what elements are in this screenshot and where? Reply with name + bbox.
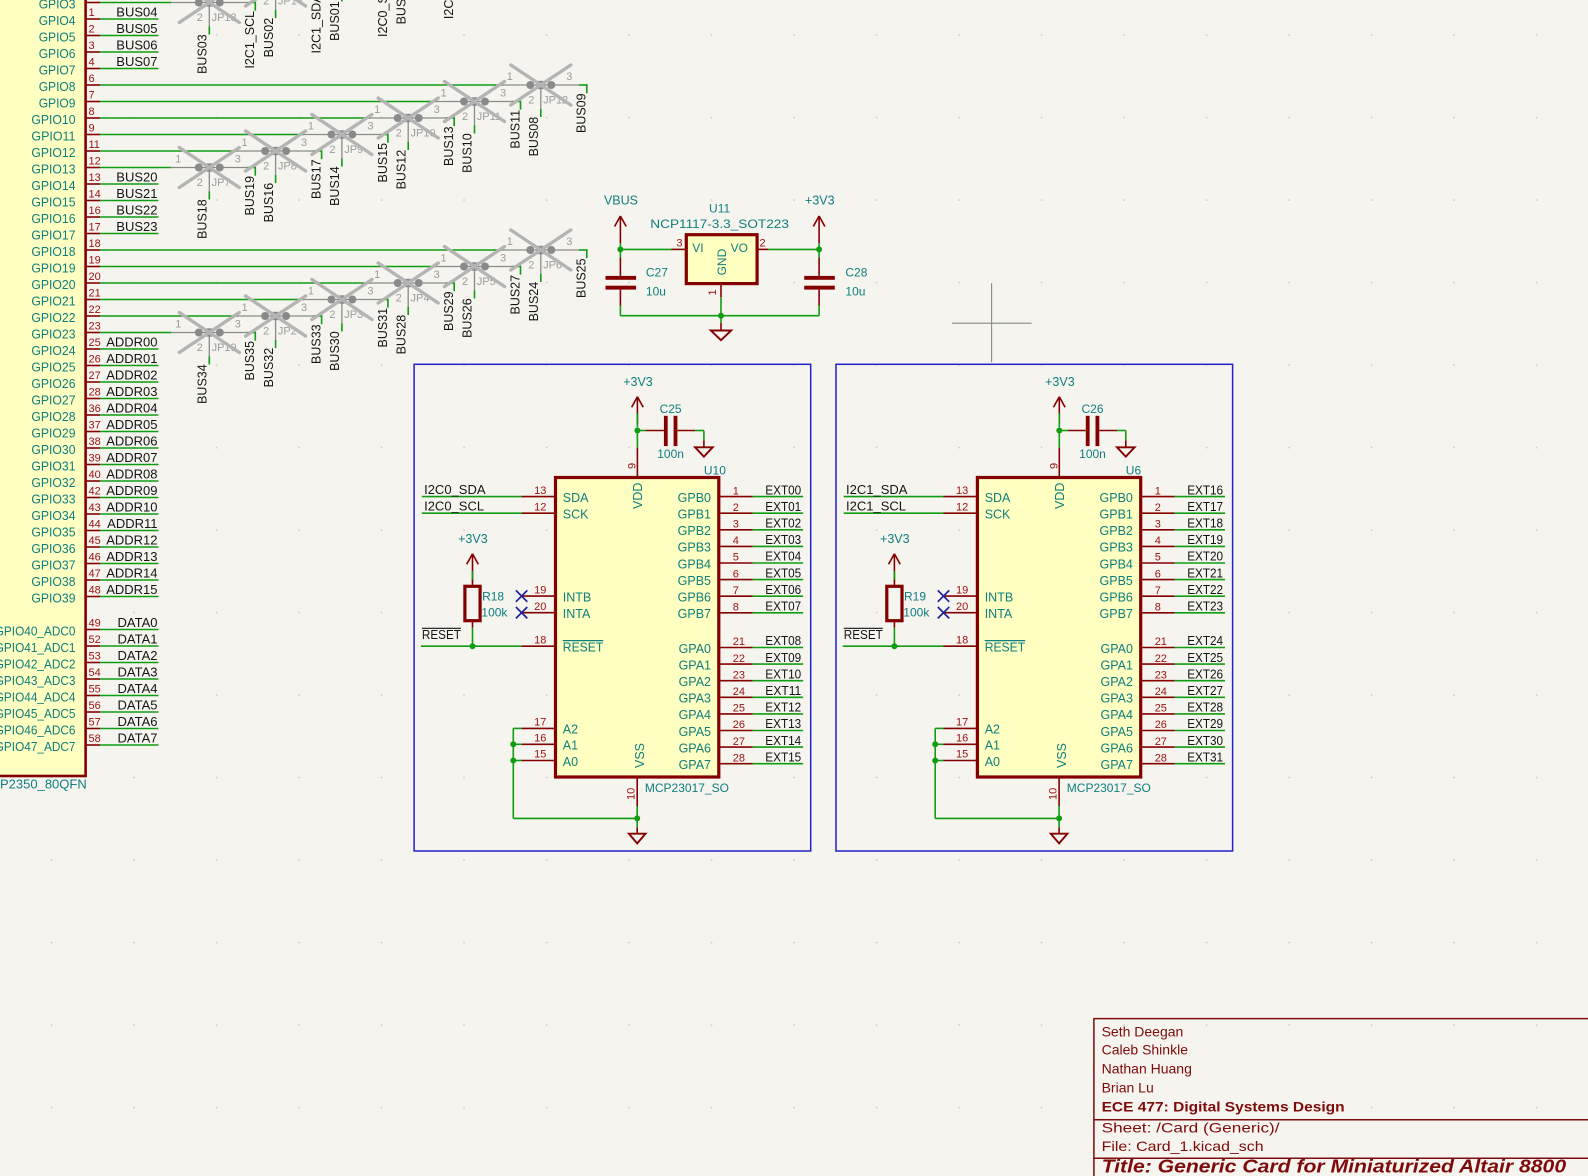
pin 57 GPIO46_ADC6 + wire + label DATA6 bbox=[0, 714, 158, 738]
pin 43 GPIO34 + wire + label ADDR10 bbox=[31, 499, 158, 523]
svg-text:1: 1 bbox=[175, 319, 181, 331]
solder jumper JP13 (DNP) bbox=[171, 0, 247, 28]
power flag +3V3 (U10 VDD) bbox=[623, 375, 653, 427]
svg-text:+3V3: +3V3 bbox=[880, 532, 910, 546]
svg-text:55: 55 bbox=[89, 684, 101, 696]
svg-text:GPA6: GPA6 bbox=[1100, 741, 1132, 755]
svg-text:EXT09: EXT09 bbox=[765, 650, 801, 665]
svg-text:EXT23: EXT23 bbox=[1187, 599, 1223, 614]
svg-text:BUS18: BUS18 bbox=[196, 199, 210, 239]
junction A0 U6 bbox=[932, 758, 938, 764]
svg-text:3: 3 bbox=[301, 302, 307, 314]
svg-text:13: 13 bbox=[89, 172, 101, 184]
svg-text:SDA: SDA bbox=[563, 491, 589, 505]
solder jumper JP6 (DNP) bbox=[503, 236, 579, 275]
svg-text:DATA0: DATA0 bbox=[118, 615, 158, 630]
pin 23 GPA2 of U6 + wire + label EXT26 bbox=[1100, 666, 1225, 689]
svg-text:2: 2 bbox=[89, 24, 95, 36]
svg-text:GPIO33: GPIO33 bbox=[31, 491, 75, 506]
svg-text:GPA2: GPA2 bbox=[679, 675, 711, 689]
pin 26 GPA5 of U6 + wire + label EXT29 bbox=[1100, 716, 1225, 739]
svg-text:9: 9 bbox=[89, 123, 95, 135]
svg-text:EXT16: EXT16 bbox=[1187, 482, 1223, 497]
svg-text:BUS28: BUS28 bbox=[394, 315, 408, 355]
solder jumper JP14 (DNP) bbox=[238, 0, 314, 11]
svg-text:EXT04: EXT04 bbox=[765, 549, 801, 564]
svg-text:21: 21 bbox=[89, 288, 101, 300]
svg-text:1: 1 bbox=[440, 253, 446, 265]
svg-text:EXT07: EXT07 bbox=[765, 599, 801, 614]
svg-text:1: 1 bbox=[733, 485, 739, 497]
svg-text:EXT31: EXT31 bbox=[1187, 749, 1223, 764]
svg-text:2: 2 bbox=[528, 94, 534, 106]
ground symbol (C26) bbox=[1117, 431, 1135, 457]
svg-text:BUS05: BUS05 bbox=[116, 21, 157, 36]
svg-text:16: 16 bbox=[534, 733, 546, 745]
svg-text:26: 26 bbox=[89, 354, 101, 366]
svg-text:GPIO41_ADC1: GPIO41_ADC1 bbox=[0, 640, 76, 655]
svg-text:20: 20 bbox=[956, 601, 968, 613]
svg-text:ADDR09: ADDR09 bbox=[106, 483, 157, 498]
wire JP12 pin2 net BUS08 bbox=[527, 109, 541, 156]
wire A2/A1/A0 bus down to VSS net U6 bbox=[935, 728, 1059, 818]
svg-text:2: 2 bbox=[733, 502, 739, 514]
svg-text:44: 44 bbox=[89, 519, 101, 531]
svg-text:BUS26: BUS26 bbox=[461, 298, 475, 338]
svg-text:EXT14: EXT14 bbox=[765, 733, 801, 748]
pins 17/16/15 A2/A1/A0 of U10 tied low bbox=[513, 717, 578, 769]
wire JP12 pin3 elbow net BUS09 bbox=[575, 84, 589, 133]
graphic frame (blue box) around U6 bbox=[836, 364, 1233, 851]
svg-text:12: 12 bbox=[89, 156, 101, 168]
pin 1 GPB0 of U10 + wire + label EXT00 bbox=[678, 482, 803, 505]
svg-text:1: 1 bbox=[242, 302, 248, 314]
svg-text:12: 12 bbox=[534, 501, 546, 513]
junction A1 U6 bbox=[932, 741, 938, 747]
svg-text:U11: U11 bbox=[709, 201, 730, 215]
svg-text:GPIO15: GPIO15 bbox=[31, 194, 75, 209]
DNP cross on JP19 bbox=[179, 313, 239, 353]
pin 26 GPA5 of U10 + wire + label EXT13 bbox=[679, 716, 804, 739]
svg-text:8: 8 bbox=[89, 106, 95, 118]
svg-text:7: 7 bbox=[733, 585, 739, 597]
solder jumper JP12 (DNP) bbox=[503, 71, 579, 110]
svg-text:C26: C26 bbox=[1081, 402, 1103, 416]
svg-text:GPIO39: GPIO39 bbox=[31, 590, 75, 605]
pin 18 RESET of U10 + wire + label RESET bbox=[421, 627, 604, 654]
svg-text:1: 1 bbox=[175, 154, 181, 166]
svg-text:27: 27 bbox=[1155, 736, 1167, 748]
svg-text:18: 18 bbox=[956, 634, 968, 646]
svg-text:GPA5: GPA5 bbox=[1100, 725, 1132, 739]
svg-text:GPIO45_ADC5: GPIO45_ADC5 bbox=[0, 706, 76, 721]
svg-text:EXT19: EXT19 bbox=[1187, 532, 1223, 547]
pin 16 GPIO16 + wire + label BUS22 bbox=[31, 202, 158, 226]
svg-text:2: 2 bbox=[263, 325, 269, 337]
svg-text:U6: U6 bbox=[1126, 464, 1142, 478]
svg-text:BUS35: BUS35 bbox=[243, 341, 257, 381]
svg-text:GPIO42_ADC2: GPIO42_ADC2 bbox=[0, 656, 76, 671]
svg-text:18: 18 bbox=[89, 238, 101, 250]
pin 11 GPIO12 + wire to jumper bbox=[31, 139, 237, 160]
svg-text:39: 39 bbox=[89, 453, 101, 465]
svg-text:2: 2 bbox=[329, 309, 335, 321]
svg-text:File: Card_1.kicad_sch: File: Card_1.kicad_sch bbox=[1102, 1138, 1264, 1154]
svg-text:GPA0: GPA0 bbox=[679, 642, 711, 656]
svg-text:GPA1: GPA1 bbox=[1100, 658, 1132, 672]
svg-text:27: 27 bbox=[89, 370, 101, 382]
pin 12 SCK of U10 + wire + label I2C0_SCL bbox=[422, 499, 589, 522]
svg-text:4: 4 bbox=[1155, 535, 1161, 547]
svg-text:BUS08: BUS08 bbox=[527, 117, 541, 157]
svg-text:GPB5: GPB5 bbox=[678, 574, 711, 588]
capacitor C26 100n bbox=[1059, 402, 1117, 461]
svg-text:16: 16 bbox=[956, 733, 968, 745]
svg-text:EXT27: EXT27 bbox=[1187, 683, 1223, 698]
svg-text:I2C1_SCL: I2C1_SCL bbox=[846, 499, 906, 514]
pin 14 GPIO15 + wire + label BUS21 bbox=[31, 186, 158, 210]
DNP cross on JP3 bbox=[312, 280, 372, 320]
wire JP19 pin3 elbow net BUS35 bbox=[243, 332, 257, 381]
svg-text:2: 2 bbox=[263, 160, 269, 172]
svg-text:1: 1 bbox=[308, 121, 314, 133]
svg-text:15: 15 bbox=[956, 749, 968, 761]
svg-text:BUS22: BUS22 bbox=[116, 202, 157, 217]
svg-text:EXT22: EXT22 bbox=[1187, 582, 1223, 597]
svg-text:8: 8 bbox=[1155, 602, 1161, 614]
svg-text:21: 21 bbox=[733, 636, 745, 648]
junction +3V3 node bbox=[816, 246, 822, 252]
DNP cross on JP12 bbox=[511, 65, 571, 105]
svg-text:ADDR10: ADDR10 bbox=[106, 499, 157, 514]
svg-text:ADDR01: ADDR01 bbox=[106, 351, 157, 366]
wire JP5 pin3 elbow net BUS27 bbox=[508, 266, 522, 315]
svg-text:ADDR02: ADDR02 bbox=[106, 367, 157, 382]
svg-text:23: 23 bbox=[1155, 669, 1167, 681]
svg-text:BUS06: BUS06 bbox=[116, 37, 157, 52]
svg-text:ADDR13: ADDR13 bbox=[106, 549, 157, 564]
svg-text:2: 2 bbox=[1155, 502, 1161, 514]
svg-text:INTB: INTB bbox=[563, 590, 591, 604]
svg-text:DATA4: DATA4 bbox=[118, 681, 158, 696]
svg-text:BUS31: BUS31 bbox=[376, 308, 390, 348]
power flag +3V3 (R19) bbox=[880, 532, 910, 581]
pin 1 GPIO4 + wire + label BUS04 bbox=[39, 4, 159, 28]
svg-text:GPIO14: GPIO14 bbox=[31, 178, 75, 193]
svg-text:GPIO37: GPIO37 bbox=[31, 557, 75, 572]
wire +3V3 down to U10 VDD pin 9 bbox=[627, 431, 639, 477]
pin 10 VSS of U6 bbox=[1047, 777, 1059, 818]
svg-text:17: 17 bbox=[89, 222, 101, 234]
pin 54 GPIO43_ADC3 + wire + label DATA3 bbox=[0, 664, 158, 688]
svg-text:GPIO20: GPIO20 bbox=[31, 277, 75, 292]
svg-text:GPB5: GPB5 bbox=[1100, 574, 1133, 588]
svg-text:GPIO27: GPIO27 bbox=[31, 392, 75, 407]
svg-text:3: 3 bbox=[367, 286, 373, 298]
pin 55 GPIO44_ADC4 + wire + label DATA4 bbox=[0, 681, 158, 705]
pin 3 GPB2 of U10 + wire + label EXT02 bbox=[678, 516, 803, 539]
svg-text:VSS: VSS bbox=[633, 743, 647, 768]
pin 49 GPIO40_ADC0 + wire + label DATA0 bbox=[0, 615, 158, 639]
wire JP9 pin3 elbow net BUS15 bbox=[376, 134, 390, 183]
svg-text:GPB3: GPB3 bbox=[1100, 541, 1133, 555]
svg-text:3: 3 bbox=[566, 236, 572, 248]
svg-text:EXT10: EXT10 bbox=[765, 666, 801, 681]
svg-text:7: 7 bbox=[89, 90, 95, 102]
svg-text:U10: U10 bbox=[704, 464, 726, 478]
wire JP7 pin2 net BUS18 bbox=[196, 192, 210, 239]
svg-text:54: 54 bbox=[89, 667, 101, 679]
svg-text:SCK: SCK bbox=[985, 508, 1011, 522]
svg-text:19: 19 bbox=[534, 584, 546, 596]
pin 24 GPA3 of U10 + wire + label EXT11 bbox=[679, 683, 804, 706]
svg-text:2: 2 bbox=[760, 237, 766, 249]
svg-text:EXT21: EXT21 bbox=[1187, 565, 1223, 580]
svg-text:17: 17 bbox=[534, 717, 546, 729]
pins 17/16/15 A2/A1/A0 of U6 tied low bbox=[935, 717, 1000, 769]
wire JP14 pin3 elbow net I2C1_SDA bbox=[310, 0, 324, 53]
svg-text:28: 28 bbox=[733, 752, 745, 764]
svg-text:1: 1 bbox=[707, 289, 719, 295]
svg-text:BUS21: BUS21 bbox=[116, 186, 157, 201]
svg-text:3: 3 bbox=[367, 121, 373, 133]
svg-text:24: 24 bbox=[733, 686, 745, 698]
svg-text:37: 37 bbox=[89, 420, 101, 432]
pin 25 GPIO24 + wire + label ADDR00 bbox=[31, 334, 158, 358]
svg-text:BUS20: BUS20 bbox=[116, 169, 157, 184]
svg-text:2: 2 bbox=[197, 177, 203, 189]
svg-text:GPIO29: GPIO29 bbox=[31, 425, 75, 440]
svg-text:INTA: INTA bbox=[985, 607, 1013, 621]
svg-text:GPA0: GPA0 bbox=[1100, 642, 1132, 656]
svg-text:ADDR14: ADDR14 bbox=[106, 565, 157, 580]
sheet origin crosshair marker bbox=[952, 283, 1032, 362]
svg-text:9: 9 bbox=[627, 463, 639, 469]
svg-text:EXT13: EXT13 bbox=[765, 716, 801, 731]
svg-text:2: 2 bbox=[197, 12, 203, 24]
pin 21 GPIO21 + wire to jumper bbox=[31, 288, 304, 309]
svg-text:EXT24: EXT24 bbox=[1187, 633, 1223, 648]
wire JP10 pin3 elbow net BUS13 bbox=[442, 117, 456, 166]
svg-text:GPIO46_ADC6: GPIO46_ADC6 bbox=[0, 722, 76, 737]
pin 8 GPB7 of U6 + wire + label EXT23 bbox=[1100, 599, 1225, 622]
DNP cross on JP6 bbox=[511, 230, 571, 270]
pin 22 GPA1 of U6 + wire + label EXT25 bbox=[1100, 650, 1225, 673]
pin 7 GPB6 of U10 + wire + label EXT06 bbox=[678, 582, 803, 605]
svg-text:I2C1_SDA: I2C1_SDA bbox=[846, 482, 908, 497]
pin 53 GPIO42_ADC2 + wire + label DATA2 bbox=[0, 648, 158, 672]
svg-text:GPIO19: GPIO19 bbox=[31, 260, 75, 275]
svg-text:GND: GND bbox=[715, 248, 729, 275]
junction VSS node U10 bbox=[634, 815, 640, 821]
svg-text:VBUS: VBUS bbox=[604, 193, 638, 207]
svg-text:EXT01: EXT01 bbox=[765, 499, 801, 514]
solder jumper JP7 (DNP) bbox=[171, 154, 247, 193]
svg-text:RESET: RESET bbox=[563, 641, 604, 655]
svg-text:A1: A1 bbox=[563, 739, 578, 753]
svg-text:BUS13: BUS13 bbox=[442, 126, 456, 166]
svg-text:53: 53 bbox=[89, 651, 101, 663]
svg-text:C27: C27 bbox=[646, 265, 668, 279]
pin 18 GPIO18 + wire to jumper bbox=[31, 238, 502, 259]
pin 48 GPIO39 + wire + label ADDR15 bbox=[31, 582, 158, 606]
pin 8 GPIO10 + wire to jumper bbox=[31, 106, 370, 127]
svg-text:INTA: INTA bbox=[563, 607, 591, 621]
svg-text:GPA7: GPA7 bbox=[1100, 758, 1132, 772]
pin 28 GPA7 of U10 + wire + label EXT15 bbox=[679, 749, 804, 772]
svg-text:GPIO43_ADC3: GPIO43_ADC3 bbox=[0, 673, 76, 688]
svg-text:RESET: RESET bbox=[422, 627, 461, 642]
title block frame bbox=[1093, 1019, 1588, 1176]
svg-text:GPIO6: GPIO6 bbox=[39, 46, 76, 61]
svg-text:3: 3 bbox=[235, 319, 241, 331]
pin 52 GPIO41_ADC1 + wire + label DATA1 bbox=[0, 631, 158, 655]
pin 22 GPA1 of U10 + wire + label EXT09 bbox=[679, 650, 804, 673]
IC U6 MCP23017_SO body bbox=[977, 464, 1150, 796]
pin 20 INTA of U10 (no-connect) bbox=[516, 601, 591, 621]
wire JP4 pin3 elbow net BUS29 bbox=[442, 282, 456, 331]
svg-text:GPIO8: GPIO8 bbox=[39, 79, 76, 94]
solder jumper JP19 (DNP) bbox=[171, 319, 247, 358]
wire JP9 pin2 net BUS14 bbox=[328, 159, 342, 206]
wire JP8 pin2 net BUS16 bbox=[262, 175, 276, 222]
pin 17 GPIO17 + wire + label BUS23 bbox=[31, 219, 158, 243]
title block text: sheet + file bbox=[1102, 1120, 1280, 1155]
DNP cross on JP13 bbox=[179, 0, 239, 23]
wire JP13 pin3 elbow net I2C1_SCL bbox=[243, 2, 257, 69]
svg-text:Seth Deegan: Seth Deegan bbox=[1102, 1024, 1184, 1040]
svg-text:3: 3 bbox=[500, 253, 506, 265]
pin 44 GPIO35 + wire + label ADDR11 bbox=[31, 516, 158, 540]
pin 19 INTB of U6 (no-connect) bbox=[938, 584, 1013, 604]
svg-text:GPA3: GPA3 bbox=[679, 692, 711, 706]
svg-text:100n: 100n bbox=[657, 447, 684, 461]
pin 2 GPB1 of U6 + wire + label EXT17 bbox=[1100, 499, 1225, 522]
svg-text:GPB3: GPB3 bbox=[678, 541, 711, 555]
svg-text:GPA3: GPA3 bbox=[1100, 692, 1132, 706]
svg-text:46: 46 bbox=[89, 552, 101, 564]
junction VBUS node bbox=[617, 246, 623, 252]
svg-text:VSS: VSS bbox=[1055, 743, 1069, 768]
svg-text:57: 57 bbox=[89, 717, 101, 729]
pin 13 GPIO14 + wire + label BUS20 bbox=[31, 169, 158, 193]
solder jumper JP4 (DNP) bbox=[370, 269, 446, 308]
svg-text:RESET: RESET bbox=[844, 627, 883, 642]
svg-text:4: 4 bbox=[733, 535, 739, 547]
svg-text:GPIO7: GPIO7 bbox=[39, 62, 76, 77]
junction VSS node U6 bbox=[1056, 815, 1062, 821]
svg-text:1: 1 bbox=[89, 7, 95, 19]
svg-text:BUS09: BUS09 bbox=[575, 93, 589, 133]
svg-text:25: 25 bbox=[733, 703, 745, 715]
svg-text:2: 2 bbox=[329, 144, 335, 156]
pin 6 GPIO8 + wire to jumper bbox=[39, 73, 503, 94]
pin 9 GPIO11 + wire to jumper bbox=[31, 123, 304, 144]
svg-text:GPIO10: GPIO10 bbox=[31, 112, 75, 127]
pin 26 GPIO25 + wire + label ADDR01 bbox=[31, 351, 158, 375]
svg-text:GPIO9: GPIO9 bbox=[39, 95, 76, 110]
svg-text:GPIO31: GPIO31 bbox=[31, 458, 75, 473]
svg-text:23: 23 bbox=[733, 669, 745, 681]
svg-text:SCK: SCK bbox=[563, 508, 589, 522]
pin 38 GPIO30 + wire + label ADDR06 bbox=[31, 433, 158, 457]
svg-text:GPIO38: GPIO38 bbox=[31, 574, 75, 589]
junction A0 U10 bbox=[510, 758, 516, 764]
svg-text:RP2350_80QFN: RP2350_80QFN bbox=[0, 777, 87, 792]
wire U11 VO to +3V3 bbox=[768, 248, 819, 250]
resistor R19 100k bbox=[887, 580, 931, 628]
svg-text:EXT12: EXT12 bbox=[765, 700, 801, 715]
svg-text:I2C1_SCL: I2C1_SCL bbox=[243, 11, 257, 69]
svg-text:GPIO23: GPIO23 bbox=[31, 326, 75, 341]
svg-text:BUS15: BUS15 bbox=[376, 143, 390, 183]
svg-text:100k: 100k bbox=[903, 605, 930, 619]
svg-text:A2: A2 bbox=[985, 723, 1000, 737]
pin 36 GPIO28 + wire + label ADDR04 bbox=[31, 400, 158, 424]
svg-text:47: 47 bbox=[89, 568, 101, 580]
svg-text:Caleb Shinkle: Caleb Shinkle bbox=[1102, 1042, 1189, 1058]
svg-text:6: 6 bbox=[1155, 568, 1161, 580]
svg-text:Sheet: /Card (Generic)/: Sheet: /Card (Generic)/ bbox=[1102, 1120, 1280, 1136]
svg-text:+3V3: +3V3 bbox=[805, 193, 835, 207]
ground symbol (U10) bbox=[629, 818, 646, 843]
svg-text:EXT00: EXT00 bbox=[765, 482, 801, 497]
svg-text:40: 40 bbox=[89, 469, 101, 481]
svg-text:BUS32: BUS32 bbox=[262, 348, 276, 388]
pin 46 GPIO37 + wire + label ADDR13 bbox=[31, 549, 158, 573]
svg-text:2: 2 bbox=[197, 342, 203, 354]
svg-text:GPA4: GPA4 bbox=[1100, 708, 1132, 722]
ground symbol (C25) bbox=[695, 431, 713, 457]
pin 58 GPIO47_ADC7 + wire + label DATA7 bbox=[0, 730, 158, 754]
svg-text:GPB7: GPB7 bbox=[1100, 607, 1133, 621]
svg-text:3: 3 bbox=[434, 269, 440, 281]
solder jumper JP5 (DNP) bbox=[437, 253, 513, 292]
svg-text:11: 11 bbox=[89, 139, 100, 151]
solder jumper JP8 (DNP) bbox=[238, 137, 314, 176]
svg-text:GPIO44_ADC4: GPIO44_ADC4 bbox=[0, 689, 76, 704]
svg-text:EXT29: EXT29 bbox=[1187, 716, 1223, 731]
pin 8 GPB7 of U10 + wire + label EXT07 bbox=[678, 599, 803, 622]
pin 2 GPIO5 + wire + label BUS05 bbox=[39, 21, 159, 45]
solder jumper JP10 (DNP) bbox=[370, 104, 446, 143]
svg-text:GPB7: GPB7 bbox=[678, 607, 711, 621]
pin 24 GPA3 of U6 + wire + label EXT27 bbox=[1100, 683, 1225, 706]
svg-text:R18: R18 bbox=[482, 589, 504, 603]
svg-text:3: 3 bbox=[676, 237, 682, 249]
svg-text:BUS10: BUS10 bbox=[461, 133, 475, 173]
svg-text:GPB6: GPB6 bbox=[1100, 591, 1133, 605]
solder jumper JP9 (DNP) bbox=[304, 121, 380, 160]
svg-text:ADDR15: ADDR15 bbox=[106, 582, 157, 597]
svg-text:2: 2 bbox=[462, 276, 468, 288]
svg-text:1: 1 bbox=[308, 286, 314, 298]
svg-text:BUS02: BUS02 bbox=[262, 18, 276, 58]
svg-text:GPIO18: GPIO18 bbox=[31, 244, 75, 259]
pin 5 GPB4 of U10 + wire + label EXT04 bbox=[678, 549, 803, 572]
svg-text:BUS33: BUS33 bbox=[310, 324, 324, 364]
svg-text:GPIO36: GPIO36 bbox=[31, 541, 75, 556]
wire R18 to RESET net bbox=[472, 628, 474, 647]
power flag +3V3 (U11 output) bbox=[805, 193, 835, 249]
wire JP3 pin3 elbow net BUS31 bbox=[376, 299, 390, 348]
svg-text:GPA5: GPA5 bbox=[679, 725, 711, 739]
svg-text:43: 43 bbox=[89, 502, 101, 514]
pin 6 GPB5 of U6 + wire + label EXT21 bbox=[1100, 565, 1225, 588]
pin 12 SCK of U6 + wire + label I2C1_SCL bbox=[844, 499, 1011, 522]
pin 27 GPIO26 + wire + label ADDR02 bbox=[31, 367, 158, 391]
DNP cross on JP7 bbox=[179, 148, 239, 188]
